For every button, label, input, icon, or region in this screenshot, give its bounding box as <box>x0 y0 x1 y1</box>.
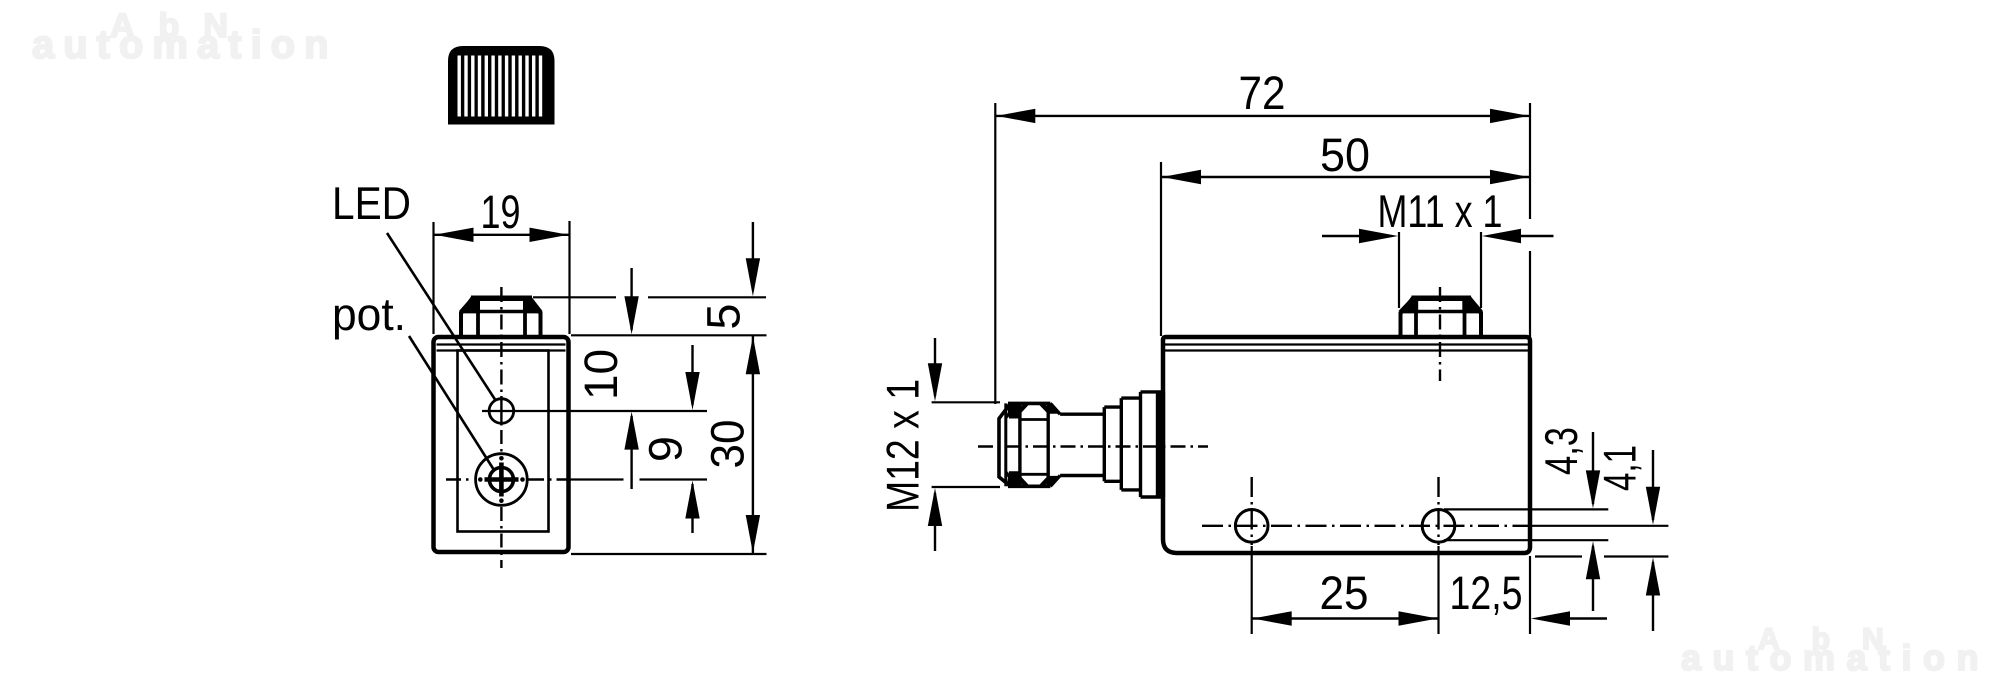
svg-text:9: 9 <box>639 436 692 462</box>
connector chamfer wedge fills <box>1007 405 1021 419</box>
front vertical centerline <box>500 287 502 393</box>
connector neck <box>1060 413 1104 416</box>
dimension 10 arrows <box>630 268 632 330</box>
svg-text:19: 19 <box>481 185 521 238</box>
LED indicator circle <box>489 399 514 424</box>
connector thread OD edges <box>1008 402 1050 406</box>
pot screw cross <box>499 463 504 497</box>
pot centerline dots <box>499 456 504 461</box>
side lid seam line upper <box>1165 343 1528 345</box>
M11 dimension arrows <box>1322 235 1365 237</box>
dimension 4,3 arrows <box>1592 432 1594 504</box>
side body outline <box>1163 337 1530 553</box>
side lock nut M11 <box>1400 298 1483 335</box>
svg-text:50: 50 <box>1320 128 1370 181</box>
svg-text:4,1: 4,1 <box>1594 445 1646 491</box>
connector hex right edge <box>1046 403 1049 486</box>
LED center line (10/9 reference) <box>482 410 707 412</box>
svg-text:LED: LED <box>332 177 411 229</box>
dimension 25 line with arrows <box>1252 617 1439 619</box>
svg-text:M12 x 1: M12 x 1 <box>877 379 929 512</box>
connector hex facet lines <box>1020 418 1048 421</box>
svg-text:72: 72 <box>1239 66 1286 119</box>
connector disc 2 <box>1121 398 1140 490</box>
dimension 50 extension line <box>1160 162 1162 336</box>
svg-text:12,5: 12,5 <box>1450 566 1523 619</box>
knob knurl stripes <box>459 56 540 117</box>
front nut chamfer wings <box>460 296 481 314</box>
svg-text:25: 25 <box>1320 566 1369 619</box>
front inner face rectangle <box>458 351 549 532</box>
holes horizontal centerline <box>1202 525 1530 527</box>
side nut centerline <box>1439 287 1441 381</box>
mounting hole left centerline vertical <box>1250 477 1252 545</box>
dimension 50 line with arrows <box>1161 176 1530 178</box>
reference line housing bottom right (30) <box>571 553 767 555</box>
connector disc 1 <box>1104 407 1121 481</box>
connector hex corner chamfers <box>1020 403 1048 486</box>
connector hex left edge <box>1018 403 1021 486</box>
reference line nut top (5) <box>533 296 616 298</box>
dimension 12,5 arrow <box>1567 617 1607 619</box>
hole tangent reference top (4,3) <box>1444 508 1608 510</box>
pot screw inner circle <box>489 468 513 492</box>
dimension 19 extension lines <box>432 222 434 334</box>
svg-text:automation: automation <box>1681 637 1990 678</box>
M12 dimension arrows <box>934 338 936 396</box>
watermark bottom-right AbN automation <box>1681 623 1990 678</box>
svg-text:5: 5 <box>697 303 750 329</box>
M12x1 reference lines <box>932 401 1000 403</box>
connector horizontal centerline <box>978 445 1208 447</box>
connector chamfer ring slants <box>1006 403 1017 486</box>
dimension 5 upper arrow <box>752 222 754 290</box>
dimension 25/12,5 extension lines <box>1251 546 1253 634</box>
pot horizontal centerline (dash-dot) <box>446 478 474 480</box>
M12 connector: end face with chamfers <box>999 403 1050 486</box>
connector neck slants <box>1050 403 1060 486</box>
hole center reference solid right (4,1) <box>1530 525 1668 527</box>
mounting hole right <box>1422 510 1455 543</box>
mounting hole right centerline vertical <box>1437 477 1439 545</box>
dimension 19 line with arrows <box>434 234 570 236</box>
svg-text:automation: automation <box>32 23 338 67</box>
leader line pot <box>409 336 494 470</box>
M11 extension lines <box>1398 232 1400 308</box>
dimension 4,1 arrows <box>1652 450 1654 520</box>
watermark top-left AbN automation <box>32 7 338 67</box>
leader line LED <box>387 233 496 401</box>
front lid seam line upper <box>437 343 566 345</box>
knob body <box>448 46 555 125</box>
mounting hole left <box>1235 510 1268 543</box>
pot line solid extension right (9 reference) <box>569 478 624 480</box>
side nut chamfer wings <box>1399 296 1418 314</box>
hole tangent reference bottom (4,3) <box>1444 539 1608 541</box>
front lid seam line lower <box>437 349 566 351</box>
connector disc 3 <box>1141 392 1162 497</box>
svg-text:M11 x 1: M11 x 1 <box>1378 185 1503 237</box>
reference line housing top right (5/30) <box>571 334 767 336</box>
svg-text:30: 30 <box>701 420 754 469</box>
dimension 30 line with arrows <box>752 335 754 554</box>
dimension 72 line with arrows <box>995 115 1530 117</box>
connector thread relief line <box>1004 403 1007 486</box>
bottom edge reference extension right (4,1) <box>1535 555 1582 557</box>
side lid seam line lower <box>1165 349 1528 351</box>
dimension 72 extension lines <box>994 103 996 404</box>
pot outer circle <box>476 454 528 506</box>
dimension 9 arrows <box>691 345 693 405</box>
front view body outline <box>434 337 569 552</box>
svg-text:4,3: 4,3 <box>1535 427 1587 475</box>
front lock nut on top <box>460 298 542 335</box>
svg-text:10: 10 <box>574 349 627 400</box>
svg-text:pot.: pot. <box>332 288 406 340</box>
